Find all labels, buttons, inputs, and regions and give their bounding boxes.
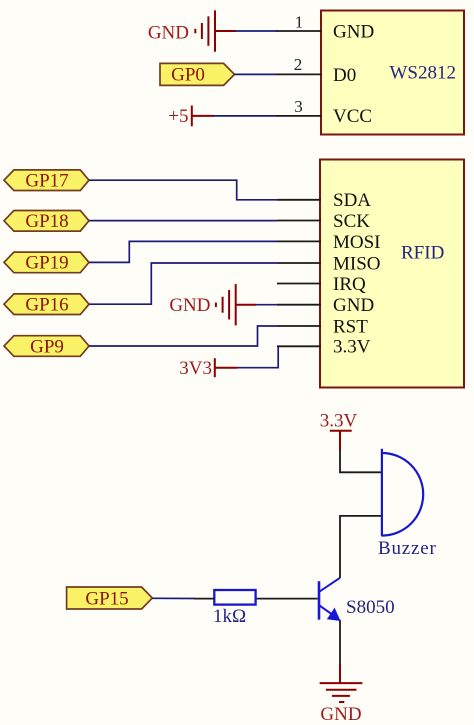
svg-text:RST: RST — [333, 316, 368, 337]
svg-text:GND: GND — [320, 704, 361, 725]
svg-text:RFID: RFID — [401, 243, 444, 264]
svg-text:VCC: VCC — [333, 106, 372, 127]
svg-text:1kΩ: 1kΩ — [213, 606, 246, 627]
svg-text:MISO: MISO — [333, 253, 381, 274]
svg-text:D0: D0 — [333, 65, 356, 86]
svg-text:GP15: GP15 — [85, 588, 128, 609]
svg-text:3: 3 — [294, 97, 303, 116]
svg-text:WS2812: WS2812 — [390, 63, 457, 84]
svg-text:2: 2 — [294, 55, 303, 74]
svg-text:Buzzer: Buzzer — [378, 538, 437, 559]
svg-text:GND: GND — [148, 22, 189, 43]
svg-text:GND: GND — [333, 22, 374, 43]
svg-text:1: 1 — [295, 13, 304, 32]
svg-text:GP17: GP17 — [25, 171, 68, 192]
svg-text:3V3: 3V3 — [179, 358, 212, 379]
svg-text:GP19: GP19 — [25, 253, 68, 274]
svg-text:SDA: SDA — [333, 190, 371, 211]
svg-text:+5: +5 — [168, 106, 188, 127]
svg-text:3.3V: 3.3V — [320, 411, 358, 432]
svg-text:GP16: GP16 — [25, 295, 68, 316]
svg-text:GP18: GP18 — [25, 211, 68, 232]
svg-text:GP0: GP0 — [171, 65, 205, 86]
svg-text:IRQ: IRQ — [333, 274, 366, 295]
svg-text:SCK: SCK — [333, 211, 370, 232]
svg-text:MOSI: MOSI — [333, 232, 381, 253]
svg-text:S8050: S8050 — [346, 597, 395, 618]
svg-text:GND: GND — [169, 295, 210, 316]
svg-text:GND: GND — [333, 295, 374, 316]
svg-text:GP9: GP9 — [30, 336, 64, 357]
svg-text:3.3V: 3.3V — [333, 337, 371, 358]
